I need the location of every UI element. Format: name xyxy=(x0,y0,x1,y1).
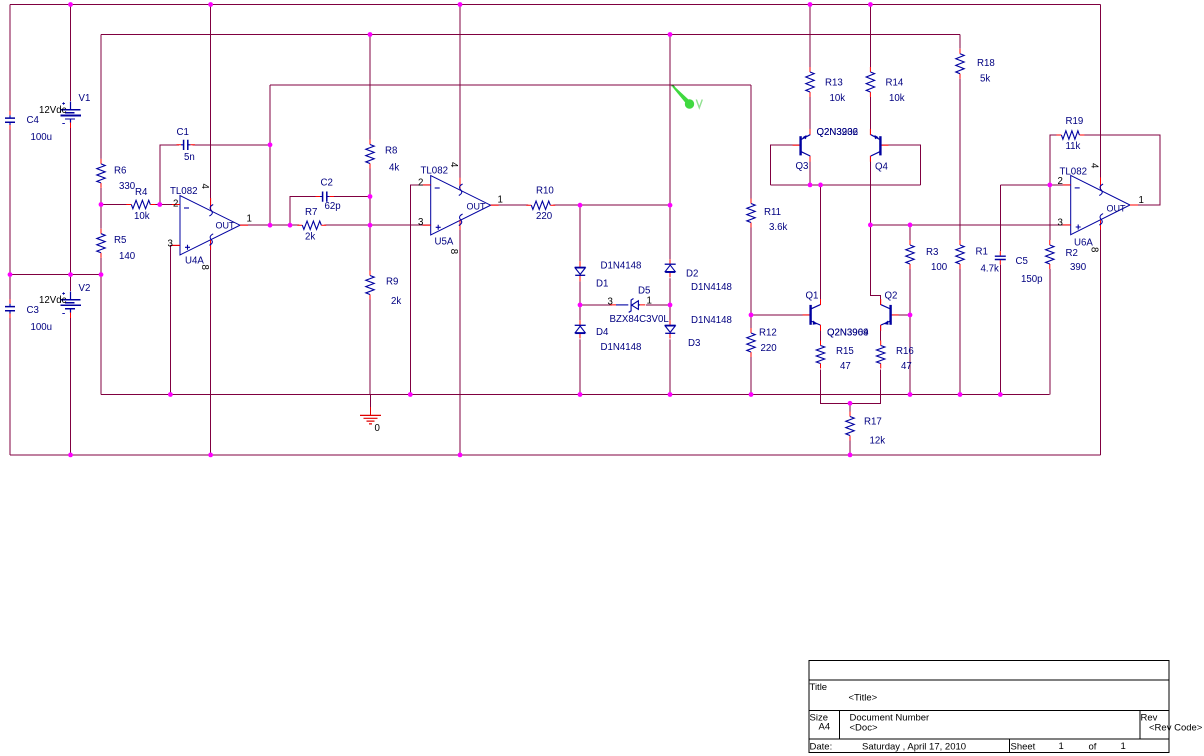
svg-text:R10: R10 xyxy=(536,186,554,197)
svg-text:D1: D1 xyxy=(596,279,608,290)
title block text xyxy=(810,682,1203,753)
wire U6A pin2 branch xyxy=(1000,184,1070,186)
svg-text:220: 220 xyxy=(761,343,778,354)
transistor Q1 xyxy=(803,299,821,331)
node gnd bus / R1 xyxy=(958,392,963,397)
svg-text:2k: 2k xyxy=(391,296,401,307)
wire R11/R12 column xyxy=(750,85,752,395)
svg-text:R5: R5 xyxy=(114,235,126,246)
svg-text:R14: R14 xyxy=(886,78,904,89)
svg-text:10k: 10k xyxy=(134,211,150,222)
op-amp U5A xyxy=(423,176,499,235)
svg-text:R12: R12 xyxy=(759,328,777,339)
svg-text:<Doc>: <Doc> xyxy=(850,723,878,734)
node top bus / R14 xyxy=(868,2,873,7)
svg-text:BZX84C3V0L: BZX84C3V0L xyxy=(610,314,670,325)
svg-text:Q2N3969: Q2N3969 xyxy=(827,328,868,339)
node pin3 wire / Q4 rail xyxy=(868,223,873,228)
svg-text:11k: 11k xyxy=(1066,141,1081,152)
svg-text:3: 3 xyxy=(1058,218,1063,229)
svg-text:2: 2 xyxy=(1058,176,1063,187)
svg-text:D1N4148: D1N4148 xyxy=(691,315,732,326)
svg-text:3: 3 xyxy=(418,217,423,228)
wire ground bus xyxy=(101,394,1050,396)
wire C5 column xyxy=(999,185,1001,395)
capacitor C2 xyxy=(316,191,334,203)
wire D2/D3 column xyxy=(669,35,671,395)
node gnd bus / D4 xyxy=(578,392,583,397)
node gnd bus / C5 xyxy=(998,392,1003,397)
svg-text:D4: D4 xyxy=(596,327,609,338)
svg-text:100u: 100u xyxy=(31,132,53,143)
svg-text:3.6k: 3.6k xyxy=(769,222,787,233)
svg-text:220: 220 xyxy=(536,211,553,222)
wire U4A pin3 xyxy=(170,245,180,394)
wire Q1 base link xyxy=(751,314,811,316)
wire R8/R9 column xyxy=(369,35,371,395)
svg-text:OUT: OUT xyxy=(216,221,236,231)
node mid rail V1/V2 xyxy=(68,272,73,277)
diode D2 xyxy=(663,259,678,278)
svg-text:R7: R7 xyxy=(305,207,317,218)
resistor R10 xyxy=(526,200,555,212)
svg-text:of: of xyxy=(1089,742,1097,753)
svg-text:Q1: Q1 xyxy=(806,291,819,302)
svg-text:Saturday , April 17, 2010: Saturday , April 17, 2010 xyxy=(862,742,966,753)
svg-text:4: 4 xyxy=(199,184,210,190)
wire D5 zener link xyxy=(580,304,670,306)
svg-text:V2: V2 xyxy=(79,283,91,294)
resistor R6 xyxy=(95,159,107,188)
wire C1 feedback branch xyxy=(160,85,270,205)
resistor R3 xyxy=(904,240,916,269)
svg-text:R17: R17 xyxy=(864,417,882,428)
resistor R18 xyxy=(954,49,966,79)
node U4A out / C2 xyxy=(288,223,293,228)
node U5A out / D1 xyxy=(578,203,583,208)
svg-text:Q2N3232: Q2N3232 xyxy=(817,127,858,138)
resistor R15 xyxy=(815,341,827,370)
transistor Q3 xyxy=(793,129,811,162)
svg-text:3: 3 xyxy=(608,297,613,308)
svg-text:OUT: OUT xyxy=(467,202,487,212)
voltage source V2 xyxy=(59,291,83,318)
op-amp U6A xyxy=(1063,175,1138,234)
node U5A out / D2 xyxy=(668,203,673,208)
svg-text:C4: C4 xyxy=(27,115,40,126)
wire R17 column xyxy=(849,403,851,455)
svg-text:R18: R18 xyxy=(977,58,995,69)
node D5 right xyxy=(668,303,673,308)
svg-text:47: 47 xyxy=(901,361,912,372)
probe marker V xyxy=(672,86,703,109)
resistor R9 xyxy=(364,271,376,300)
wire U5A pin2 to ground xyxy=(410,185,430,395)
wire Q4 base loop xyxy=(880,145,920,185)
capacitor C4 xyxy=(3,111,17,130)
svg-text:R6: R6 xyxy=(114,166,126,177)
wire R6/R5 rail xyxy=(100,35,102,395)
svg-text:12Vdc: 12Vdc xyxy=(39,105,67,116)
node top bus / R13 xyxy=(808,2,813,7)
resistor R12 xyxy=(745,328,757,357)
svg-text:R9: R9 xyxy=(386,277,398,288)
wire U6A pin3 branch xyxy=(870,224,1070,226)
svg-text:D1N4148: D1N4148 xyxy=(601,342,642,353)
wire U5A power rail xyxy=(459,5,461,455)
resistor R11 xyxy=(745,199,757,228)
wire R2 column xyxy=(1049,185,1051,395)
svg-text:1: 1 xyxy=(498,195,503,206)
wire V1/V2 rail xyxy=(70,5,72,455)
svg-text:47: 47 xyxy=(840,361,851,372)
svg-text:100: 100 xyxy=(931,262,948,273)
svg-text:2: 2 xyxy=(418,178,423,189)
wire R3 column xyxy=(909,225,911,395)
node C2 / R8 column xyxy=(368,194,373,199)
svg-text:D1N4148: D1N4148 xyxy=(601,261,642,272)
TITLE BLOCK xyxy=(809,661,1203,753)
node R4 / R6 rail xyxy=(99,202,104,207)
svg-text:C5: C5 xyxy=(1016,256,1028,267)
svg-text:R8: R8 xyxy=(385,146,397,157)
svg-text:Q2: Q2 xyxy=(885,291,898,302)
resistor R1 xyxy=(954,240,966,269)
svg-text:R11: R11 xyxy=(764,207,781,218)
svg-text:C3: C3 xyxy=(27,305,39,316)
wire H3 upper bus to R11 xyxy=(270,84,751,86)
svg-text:TL082: TL082 xyxy=(170,186,197,197)
wire Q2 base link xyxy=(891,314,910,316)
svg-text:8: 8 xyxy=(1089,247,1100,252)
svg-text:4: 4 xyxy=(1089,163,1100,169)
svg-text:R13: R13 xyxy=(825,78,843,89)
wire bottom return bus xyxy=(10,454,1101,456)
node D5 left xyxy=(578,303,583,308)
svg-text:Q3: Q3 xyxy=(796,161,809,172)
svg-text:1: 1 xyxy=(647,296,652,307)
zener diode D5 xyxy=(610,297,646,313)
node H2 / D2 column xyxy=(668,32,673,37)
svg-text:<Rev Code>: <Rev Code> xyxy=(1149,723,1203,734)
svg-text:R19: R19 xyxy=(1066,116,1084,127)
node U6A pin2 / R19 xyxy=(1047,183,1052,188)
wire Q1 emitter / R15 xyxy=(821,325,851,404)
svg-text:390: 390 xyxy=(1070,262,1087,273)
wire Q3 base loop xyxy=(770,145,800,185)
svg-text:D2: D2 xyxy=(686,269,698,280)
svg-text:8: 8 xyxy=(199,265,210,270)
svg-text:4k: 4k xyxy=(389,163,399,174)
node gnd bus / U5A pin2 xyxy=(408,392,413,397)
node R4 / C1 branch xyxy=(157,202,162,207)
node collector bus / Q3 xyxy=(808,183,813,188)
svg-text:TL082: TL082 xyxy=(421,166,448,177)
svg-text:100u: 100u xyxy=(31,322,53,333)
capacitor C5 xyxy=(994,251,1007,265)
node C1 / x270 xyxy=(268,142,273,147)
wire mid supply link rail xyxy=(10,274,101,276)
svg-text:0: 0 xyxy=(375,423,381,434)
resistor R16 xyxy=(875,341,887,370)
node pin3 wire / R3 xyxy=(908,223,913,228)
svg-text:3: 3 xyxy=(168,239,173,250)
svg-text:10k: 10k xyxy=(830,93,846,104)
svg-text:1: 1 xyxy=(247,214,252,225)
title block frame xyxy=(809,661,1169,753)
node R15/R16 jog / R17 xyxy=(848,401,853,406)
svg-text:R15: R15 xyxy=(836,346,854,357)
transistor Q2 xyxy=(881,299,899,331)
svg-text:5k: 5k xyxy=(980,74,990,85)
node U4A out / x270 xyxy=(268,223,273,228)
svg-text:10k: 10k xyxy=(889,93,905,104)
diode D3 xyxy=(663,320,678,339)
resistor R17 xyxy=(844,412,856,441)
svg-text:R4: R4 xyxy=(135,187,148,198)
wire H2 mid supply bus xyxy=(101,34,960,36)
resistor R13 xyxy=(804,67,816,97)
node mid rail left xyxy=(8,272,13,277)
svg-text:1: 1 xyxy=(1139,195,1144,206)
node H2 / R8 xyxy=(368,32,373,37)
svg-text:R16: R16 xyxy=(896,346,914,357)
node gnd bus / R12 xyxy=(749,392,754,397)
svg-text:R1: R1 xyxy=(976,247,988,258)
resistor R5 xyxy=(95,229,107,258)
svg-text:A4: A4 xyxy=(819,722,831,733)
svg-text:U5A: U5A xyxy=(435,237,454,248)
svg-text:150p: 150p xyxy=(1021,274,1043,285)
wire Q3/Q4 collector bus xyxy=(770,184,920,186)
node U5A pin3 / R9 xyxy=(368,223,373,228)
svg-text:C1: C1 xyxy=(177,127,189,138)
resistor R14 xyxy=(864,67,876,97)
wire R19 feedback loop xyxy=(1050,135,1160,205)
svg-text:4.7k: 4.7k xyxy=(981,264,999,275)
svg-text:D1N4148: D1N4148 xyxy=(691,282,732,293)
wire Q2 emitter / R16 xyxy=(850,325,881,404)
svg-text:Sheet: Sheet xyxy=(1011,742,1036,753)
wire U6A power rail xyxy=(1100,5,1102,455)
wire R4 input xyxy=(101,204,180,206)
resistor R8 xyxy=(364,140,376,169)
svg-text:2k: 2k xyxy=(305,232,315,243)
node gnd bus / U4A pin3 xyxy=(168,392,173,397)
resistor R4 xyxy=(126,199,155,211)
svg-text:Title: Title xyxy=(810,682,828,693)
node top bus / V1 xyxy=(68,2,73,7)
svg-text:12Vdc: 12Vdc xyxy=(39,295,67,306)
svg-text:5n: 5n xyxy=(184,152,195,163)
node collector bus / Q1 xyxy=(818,183,823,188)
resistor R2 xyxy=(1044,240,1056,269)
voltage source V1 xyxy=(59,101,83,128)
capacitor C1 xyxy=(177,139,195,151)
svg-text:OUT: OUT xyxy=(1107,204,1127,214)
svg-text:V1: V1 xyxy=(79,93,91,104)
svg-text:4: 4 xyxy=(448,162,459,168)
node Q1 base / R12 xyxy=(749,313,754,318)
wire U4A power rail xyxy=(210,5,212,455)
wire R18/R1 column xyxy=(959,35,961,395)
svg-text:Q4: Q4 xyxy=(875,162,889,173)
wire left C4 rail xyxy=(9,5,11,455)
svg-text:62p: 62p xyxy=(325,201,341,212)
wire Q1 collector rail xyxy=(820,185,822,305)
svg-text:Date:: Date: xyxy=(810,742,833,753)
wire C2 branch xyxy=(290,197,370,226)
wire U4A out to U5A pin3 xyxy=(240,224,431,226)
node bottom bus / V2 xyxy=(68,453,73,458)
svg-text:1: 1 xyxy=(1121,741,1126,752)
svg-text:2: 2 xyxy=(173,199,178,210)
svg-text:TL082: TL082 xyxy=(1060,167,1087,178)
wire top supply bus xyxy=(10,4,1101,6)
node gnd bus / R3 xyxy=(908,392,913,397)
wire D1/D4 column xyxy=(579,205,581,394)
capacitor C3 xyxy=(3,299,17,318)
node Q2 base / R3 xyxy=(908,313,913,318)
node top bus / U4A rail xyxy=(208,2,213,7)
svg-text:140: 140 xyxy=(119,251,136,262)
op-amp U4A xyxy=(172,196,248,255)
diode D1 xyxy=(573,261,588,281)
svg-text:330: 330 xyxy=(119,181,136,192)
svg-text:R2: R2 xyxy=(1066,248,1078,259)
node bottom bus / R17 xyxy=(848,453,853,458)
svg-text:C2: C2 xyxy=(321,178,333,189)
wire R13 column xyxy=(809,5,811,185)
svg-text:R3: R3 xyxy=(926,247,938,258)
resistor R7 xyxy=(297,220,326,232)
svg-text:1: 1 xyxy=(1059,741,1064,752)
node bottom bus / U5A rail xyxy=(458,453,463,458)
ground 0 symbol xyxy=(360,407,381,424)
wire ground stub xyxy=(370,395,372,408)
node top bus / U5A rail xyxy=(458,2,463,7)
wire U5A out to diode bridge xyxy=(491,204,670,206)
resistor R19 xyxy=(1056,130,1084,142)
svg-text:D3: D3 xyxy=(688,338,700,349)
wire R14 column / Q4 collector xyxy=(870,5,880,305)
wire x270 down to U4A out xyxy=(269,145,271,225)
transistor Q4 xyxy=(870,129,888,162)
svg-text:8: 8 xyxy=(448,249,459,254)
node mid rail R5 xyxy=(99,272,104,277)
svg-text:12k: 12k xyxy=(870,436,886,447)
node bottom bus / U4A rail xyxy=(208,453,213,458)
diode D4 xyxy=(573,320,588,339)
node gnd bus / D3 xyxy=(668,392,673,397)
svg-text:<Title>: <Title> xyxy=(849,693,878,704)
